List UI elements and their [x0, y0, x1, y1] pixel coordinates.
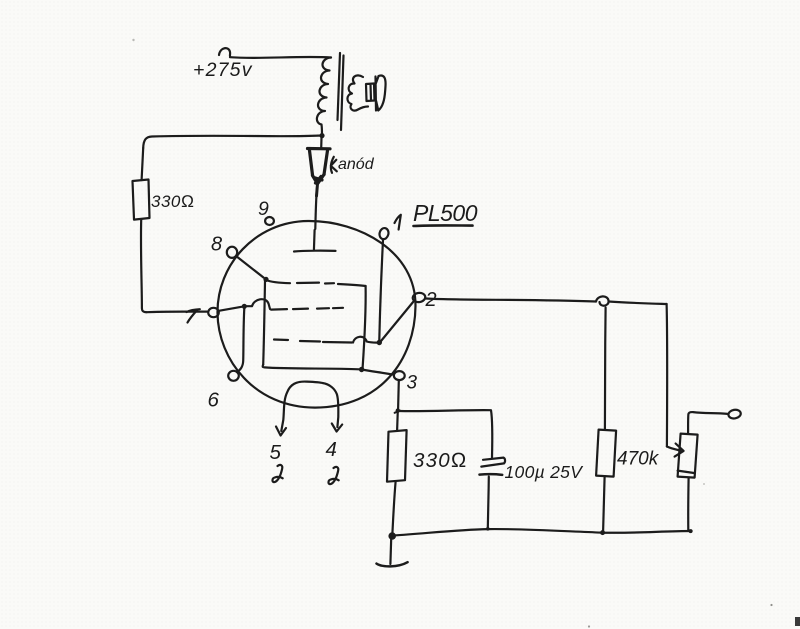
svg-text:anód: anód	[338, 156, 375, 173]
pin 1 circle	[378, 227, 389, 240]
resistor R2 body	[387, 430, 407, 482]
junction dot transformer / anode cap	[319, 133, 324, 138]
wire R1 top lead	[142, 148, 144, 180]
label f right	[328, 467, 338, 484]
wire pin 2 bus to the right	[426, 299, 596, 302]
wire supply feed to transformer top	[219, 48, 331, 58]
pin 6 circle	[228, 371, 239, 381]
filament arrow pin 4	[332, 424, 342, 432]
label f left	[272, 465, 282, 482]
wire R4 bottom lead	[687, 478, 690, 531]
label anod with arrow	[331, 157, 337, 173]
electrode box bottom edge	[263, 365, 359, 370]
ground symbol	[377, 562, 408, 566]
pin 3 circle	[394, 371, 405, 380]
junction loop screen feed	[596, 296, 609, 305]
junction dot control grid node	[242, 304, 247, 309]
transformer T1 primary winding	[317, 58, 331, 136]
svg-text:5: 5	[270, 441, 282, 464]
wire junction to R2 top	[396, 411, 399, 431]
svg-text:100µ 25V: 100µ 25V	[505, 462, 585, 482]
svg-text:9: 9	[258, 198, 269, 220]
junction dot cathode node	[359, 367, 364, 372]
filament heater curve	[281, 382, 338, 431]
electrode box left edge	[263, 281, 265, 365]
wire pin 8 to box corner	[237, 257, 264, 278]
svg-text:6: 6	[208, 389, 220, 412]
wire grid node down to pin 6	[237, 308, 244, 372]
grid 2 dashed row	[271, 308, 343, 310]
junction dot pin 8 node	[263, 277, 268, 282]
svg-text:330Ω: 330Ω	[151, 192, 194, 211]
pin 9 circle	[265, 217, 274, 225]
label pin 1	[395, 215, 401, 230]
junction dot R3 bus	[600, 530, 605, 535]
junction dot cathode network	[396, 408, 400, 412]
wire pin 3 down	[397, 381, 400, 410]
wire from R1 top to anode junction	[143, 136, 322, 149]
junction dot ground node	[388, 532, 396, 540]
wire R2 bottom lead	[392, 482, 395, 534]
resistor R3 body	[596, 430, 616, 477]
transformer T1 core	[338, 53, 344, 130]
wire C1 bottom lead	[488, 477, 489, 529]
anode cap stem thick part	[315, 185, 319, 196]
wire down to pot wiper	[665, 304, 668, 447]
wire pin 1 down to screen node	[379, 240, 383, 340]
grid 3 dashed row with hop	[274, 337, 377, 343]
filament arrow pin 5	[276, 427, 286, 436]
wire junction to capacitor top	[400, 410, 493, 457]
pin 2 circle	[412, 292, 426, 303]
speaker LS1 voice coil	[366, 84, 375, 102]
wire grid node hop over box edge	[247, 299, 270, 309]
anode plate bar	[294, 230, 336, 252]
svg-text:4: 4	[326, 438, 337, 461]
wire to pin 7	[147, 311, 207, 314]
wire loop down to R3	[604, 308, 607, 430]
wire ground lead	[389, 539, 392, 565]
label pin 7	[187, 309, 200, 322]
wire pin 7 to junction	[219, 307, 242, 311]
tube V1 PL500 envelope	[217, 221, 415, 408]
wire R3 bottom lead	[603, 477, 605, 532]
scan speck lower right	[770, 604, 772, 606]
electrode box top edge with dashes	[266, 280, 366, 286]
capacitor C1 top plate	[481, 458, 505, 467]
electrode box right edge	[363, 286, 366, 368]
capacitor C1 bottom plate	[480, 473, 503, 476]
wire loop to right corner	[609, 302, 667, 305]
scan mark bottom right corner	[795, 617, 800, 626]
svg-text:470k: 470k	[617, 449, 660, 470]
wire bottom bus	[393, 529, 692, 536]
output terminal	[728, 409, 742, 420]
wire anode cap stem to tube	[315, 138, 321, 229]
resistor R1 body	[133, 180, 150, 220]
svg-text:3: 3	[407, 373, 418, 394]
wire R4 top lead to terminal	[688, 412, 728, 434]
scan speck top left	[132, 39, 134, 41]
svg-text:PL500: PL500	[413, 200, 478, 226]
underline PL500	[414, 224, 473, 227]
junction dot R4 bus	[689, 529, 693, 533]
svg-text:8: 8	[211, 234, 222, 256]
pin 8 circle	[227, 247, 237, 258]
wire pin 2 down to screen node	[381, 302, 414, 342]
svg-text:+275v: +275v	[193, 59, 253, 81]
svg-text:2: 2	[425, 289, 437, 311]
junction tick	[395, 411, 400, 413]
anode top cap cup	[308, 149, 331, 184]
pot wiper arrow	[667, 444, 684, 457]
junction dot screen node	[377, 340, 382, 345]
junction dot C1 bus	[486, 527, 490, 531]
wire R1 bottom lead down to grid wire	[141, 220, 147, 313]
pin 7 circle	[208, 308, 219, 317]
speaker LS1 scribble magnet	[347, 75, 368, 110]
svg-text:330Ω: 330Ω	[413, 449, 468, 472]
wire cathode node to pin 3	[362, 370, 393, 375]
speaker LS1 cone	[376, 75, 386, 110]
potentiometer R4 body	[678, 434, 698, 478]
